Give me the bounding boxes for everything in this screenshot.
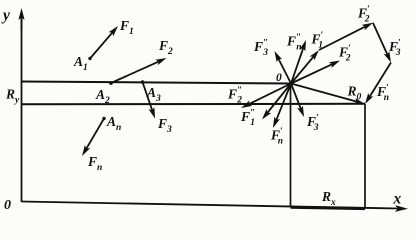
svg-text:F′n: F′n — [376, 84, 389, 104]
vector F2dd — [241, 84, 291, 109]
label A1 — [73, 54, 88, 73]
vector F3dd — [275, 51, 292, 84]
svg-text:F1: F1 — [119, 18, 134, 37]
label y — [1, 7, 10, 24]
label An — [106, 114, 121, 133]
label O — [276, 72, 282, 84]
svg-text:A2: A2 — [95, 87, 110, 106]
label F1d — [311, 31, 324, 51]
svg-text:0: 0 — [276, 72, 282, 84]
label polygon F3d — [388, 39, 401, 59]
polygon edge Fnd — [365, 63, 391, 105]
vector F2d at O — [291, 61, 340, 84]
label R0 — [347, 84, 362, 103]
svg-text:A1: A1 — [73, 54, 88, 73]
label polygon F2d — [357, 5, 370, 25]
label Rx — [321, 189, 336, 208]
label F1dd — [240, 109, 255, 129]
svg-text:F″3: F″3 — [253, 39, 268, 59]
y-axis — [18, 8, 24, 202]
label x — [393, 191, 402, 208]
point A2 — [109, 81, 113, 85]
projection line from R0 tip — [364, 104, 366, 208]
label Fn — [87, 154, 102, 173]
label F2 — [158, 38, 173, 57]
label F2dd — [227, 86, 242, 106]
projection line Ry top — [22, 82, 291, 84]
vector Fndd — [291, 40, 306, 84]
vector F3 — [143, 82, 156, 119]
svg-text:Fn: Fn — [87, 154, 102, 173]
svg-text:Rx: Rx — [321, 189, 336, 208]
vector Fn — [82, 119, 104, 157]
svg-text:y: y — [1, 7, 10, 24]
label F2d at O — [338, 44, 351, 64]
svg-text:F2: F2 — [158, 38, 173, 57]
label F3 — [157, 116, 172, 135]
label A2 — [95, 87, 110, 106]
svg-text:F′2: F′2 — [357, 5, 370, 25]
svg-text:F′n: F′n — [270, 127, 283, 147]
svg-text:F′1: F′1 — [311, 31, 324, 51]
label A3 — [146, 85, 161, 104]
projection line Ry bottom — [22, 103, 365, 106]
label Fndd — [286, 33, 302, 53]
point A3 — [141, 80, 144, 83]
polygon edge F2d — [319, 23, 373, 50]
x-axis — [22, 202, 409, 212]
svg-text:F′3: F′3 — [388, 39, 401, 59]
label polygon Fnd — [376, 84, 389, 104]
svg-text:F″2: F″2 — [227, 86, 242, 106]
label F1 — [119, 18, 134, 37]
svg-text:F″n: F″n — [286, 33, 302, 53]
vector F1dd — [262, 84, 291, 120]
svg-text:F3: F3 — [157, 116, 172, 135]
polygon edge F3d — [373, 23, 391, 63]
svg-text:x: x — [393, 191, 402, 208]
label Fnd at O — [270, 127, 283, 147]
svg-text:F′2: F′2 — [338, 44, 351, 64]
vector F2 — [111, 58, 167, 83]
point A1 — [88, 57, 91, 60]
svg-text:F′3: F′3 — [306, 114, 319, 134]
origin label 0 — [4, 198, 11, 213]
svg-text:0: 0 — [4, 198, 11, 213]
label F3dd — [253, 39, 268, 59]
svg-text:An: An — [106, 114, 121, 133]
vector F3d at O — [291, 84, 304, 118]
vector F1d — [291, 50, 319, 84]
Rx axis segment — [291, 207, 366, 208]
point An — [102, 117, 105, 120]
label Ry — [5, 87, 20, 106]
vector F1 — [90, 26, 118, 59]
svg-text:Ry: Ry — [5, 87, 20, 106]
projection line from O — [290, 84, 292, 208]
vector Fnd at O — [273, 84, 291, 129]
svg-text:F″1: F″1 — [240, 109, 255, 129]
vector R0 — [291, 84, 365, 105]
label F3d at O — [306, 114, 319, 134]
